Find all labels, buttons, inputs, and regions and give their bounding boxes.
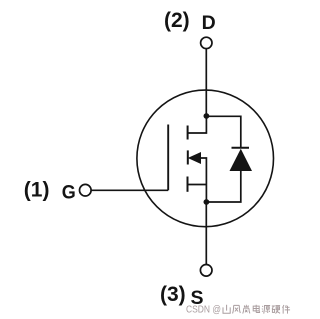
wire gate lead [91, 189, 168, 191]
MOSFET channel bottom bar (source segment) [187, 177, 189, 192]
node source junction dot [204, 199, 210, 205]
wire body lead to source junction [200, 158, 207, 202]
label (3) S [160, 283, 204, 309]
svg-text:CSDN @: CSDN @ [186, 303, 221, 315]
svg-text:G: G [62, 181, 76, 203]
watermark glyph feng [233, 305, 241, 313]
MOSFET gate plate [167, 125, 169, 191]
watermark glyph dian [253, 305, 259, 313]
diode D1 cathode bar [232, 147, 250, 149]
wire drain lead to channel top bar [188, 116, 207, 133]
watermark glyph shan [223, 305, 230, 313]
diode D1 anode triangle [230, 149, 253, 171]
svg-text:D: D [202, 12, 216, 34]
svg-text:(3): (3) [160, 283, 186, 306]
watermark glyph ying [272, 306, 280, 314]
wire source (junction to S terminal) [205, 202, 207, 264]
label (2) D [164, 9, 216, 34]
node drain junction dot [204, 113, 210, 119]
MOSFET channel middle bar (body segment) [187, 150, 189, 164]
wire diode top (junction to cathode) [206, 116, 240, 148]
svg-text:(1): (1) [24, 178, 50, 201]
MOSFET body arrow (points to channel) [189, 153, 201, 163]
watermark glyph yuan [262, 306, 270, 314]
transistor envelope circle Q1 [137, 90, 274, 227]
MOSFET channel top bar (drain segment) [187, 126, 189, 140]
watermark glyph jian [282, 305, 290, 314]
wire drain (D terminal to junction) [205, 49, 207, 116]
terminal circle D (pin 2) [201, 37, 212, 48]
label (1) G [24, 178, 76, 203]
svg-text:(2): (2) [164, 9, 190, 32]
wire source lead [188, 184, 207, 186]
terminal circle S (pin 3) [200, 265, 212, 277]
terminal circle G (pin 1) [80, 184, 92, 196]
watermark glyph lan [243, 305, 250, 314]
wire diode bottom (anode to source junction) [206, 171, 240, 202]
